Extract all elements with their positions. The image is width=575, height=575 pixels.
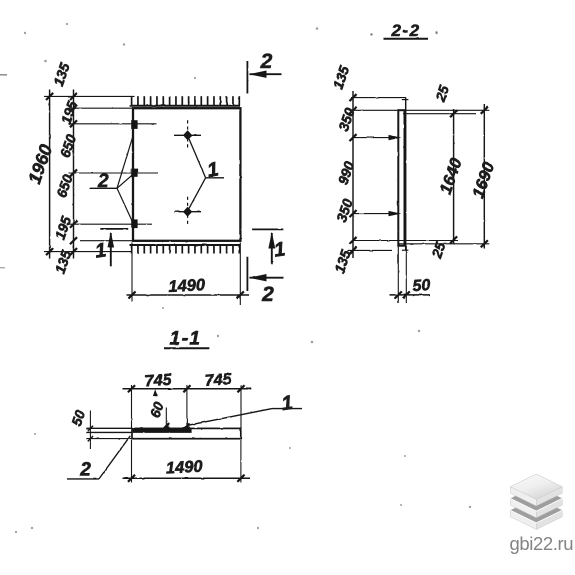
svg-text:2-2: 2-2: [390, 21, 420, 40]
svg-text:50: 50: [412, 277, 431, 295]
svg-text:1490: 1490: [168, 276, 206, 296]
svg-text:2: 2: [97, 171, 109, 192]
svg-text:2: 2: [260, 50, 273, 73]
svg-text:2: 2: [79, 460, 91, 481]
svg-text:1-1: 1-1: [170, 329, 202, 350]
svg-text:1490: 1490: [165, 458, 203, 478]
svg-text:745: 745: [204, 371, 233, 390]
svg-text:2: 2: [261, 283, 274, 306]
svg-text:gbi22.ru: gbi22.ru: [509, 533, 573, 554]
svg-text:745: 745: [144, 372, 173, 391]
